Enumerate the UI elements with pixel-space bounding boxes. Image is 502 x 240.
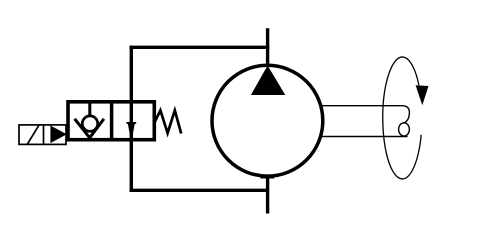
check valve seat V (75, 119, 104, 138)
check valve stem (88, 102, 91, 116)
wire top vertical stub (266, 28, 269, 65)
check valve ball circle (82, 116, 97, 131)
pump bottom port tick (260, 175, 274, 179)
pump outlet triangle (251, 66, 285, 96)
solenoid box (19, 125, 66, 144)
solenoid box divider (43, 125, 45, 144)
wire top horizontal (130, 46, 270, 49)
wire bottom vertical stub (266, 176, 269, 214)
pump P1 circle (212, 65, 323, 176)
shaft bottom line (321, 136, 408, 138)
rotation ellipse arc (383, 57, 421, 179)
spring (154, 110, 181, 133)
check valve lower stub (88, 136, 91, 140)
rotation arrow head (416, 85, 429, 105)
flow arrow whisker (126, 122, 136, 124)
valve divider (110, 102, 114, 140)
wire left vertical through valve (130, 46, 133, 192)
shaft end corner (402, 106, 409, 124)
flow arrow head (128, 122, 135, 142)
solenoid pilot triangle (50, 126, 66, 144)
valve V1 body (68, 102, 154, 140)
solenoid diagonal (27, 125, 39, 144)
shaft end loop (399, 123, 410, 136)
wire bottom horizontal (130, 189, 268, 192)
shaft top line (321, 105, 404, 107)
